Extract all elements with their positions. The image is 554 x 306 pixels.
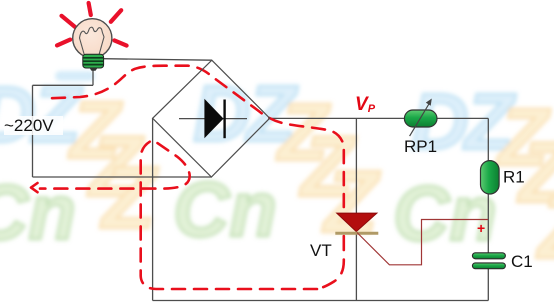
svg-text:Z: Z [321, 152, 381, 251]
svg-text:RP1: RP1 [404, 137, 437, 156]
current flow path (dashed red) through VT down [319, 236, 344, 289]
AC source label ~220V [4, 116, 63, 135]
svg-text:Z: Z [99, 148, 159, 247]
lamp rays [57, 3, 127, 46]
wire RP1 to right rail [437, 117, 488, 119]
wire right rail R1 to C1 [487, 194, 489, 253]
current flow path (dashed red) upper loop [52, 66, 344, 207]
lamp EL [57, 3, 127, 71]
wire VT anode branch [355, 118, 357, 213]
lamp screw base [83, 54, 104, 71]
wire left rail down [32, 85, 34, 177]
bridge rectifier diamond [153, 60, 270, 177]
wire bottom rail [153, 300, 489, 302]
wire right rail upper (to R1) [487, 118, 489, 160]
lamp bulb [73, 19, 112, 58]
wire bridge left corner drop [152, 118, 154, 300]
current flow path (dashed red) bottom and left riser [40, 140, 317, 289]
diode inside bridge [179, 99, 247, 138]
wire lamp to left rail [33, 84, 94, 86]
lamp filament [80, 27, 105, 55]
capacitor C1 [472, 253, 505, 269]
gate wire of VT [357, 220, 488, 265]
svg-text:VP: VP [355, 94, 376, 115]
wire VT cathode to bottom rail [355, 234, 357, 301]
svg-text:~220V: ~220V [4, 116, 54, 135]
wire to bridge bottom corner [33, 176, 212, 178]
resistor R1 [481, 161, 500, 194]
potentiometer RP1 [404, 99, 437, 137]
svg-text:+: + [477, 220, 485, 236]
current flow arrow head [31, 183, 38, 192]
wire lamp stub down [92, 71, 94, 86]
svg-text:Cn: Cn [0, 168, 76, 256]
thyristor VT [335, 213, 378, 233]
wire bridge right corner to RP1 [270, 117, 405, 119]
svg-text:R1: R1 [503, 168, 525, 187]
wire right rail C1 to bottom [487, 269, 489, 301]
svg-text:VT: VT [310, 241, 332, 260]
svg-text:Z: Z [535, 178, 554, 277]
svg-text:C1: C1 [511, 252, 533, 271]
wire top: lamp to bridge top corner [104, 59, 212, 61]
